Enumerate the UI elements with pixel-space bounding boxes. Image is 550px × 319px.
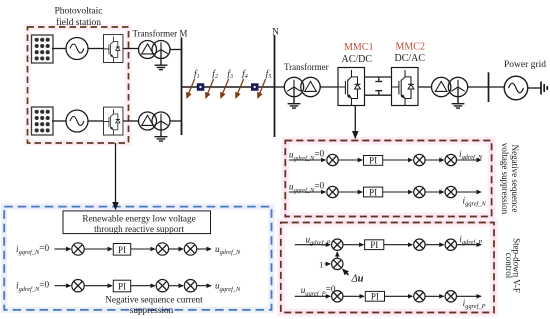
svg-text:MMC2: MMC2: [396, 42, 425, 53]
svg-text:Negative sequence: Negative sequence: [510, 145, 520, 213]
svg-text:PI: PI: [371, 292, 379, 302]
svg-text:Transformer: Transformer: [284, 62, 329, 72]
svg-text:AC/DC: AC/DC: [342, 54, 373, 65]
svg-text:suppression: suppression: [130, 305, 174, 315]
svg-text:Renewable energy low voltage: Renewable energy low voltage: [82, 214, 195, 224]
svg-text:voltage suppression: voltage suppression: [500, 143, 510, 215]
svg-text:PI: PI: [369, 156, 377, 166]
svg-text:PI: PI: [370, 240, 378, 250]
svg-text:control: control: [504, 253, 514, 279]
svg-text:N: N: [272, 28, 279, 38]
svg-text:MMC1: MMC1: [344, 42, 373, 53]
svg-text:Photovoltaic: Photovoltaic: [54, 7, 102, 17]
svg-text:Negative sequence current: Negative sequence current: [105, 295, 203, 305]
svg-text:PI: PI: [369, 187, 377, 197]
svg-text:field station: field station: [56, 17, 101, 28]
svg-text:through reactive support: through reactive support: [94, 224, 184, 234]
svg-text:Power grid: Power grid: [504, 60, 546, 70]
svg-text:PI: PI: [118, 245, 126, 255]
svg-text:1: 1: [319, 260, 323, 270]
svg-text:PI: PI: [118, 282, 126, 292]
svg-text:DC/AC: DC/AC: [395, 53, 426, 64]
svg-text:Transformer M: Transformer M: [133, 29, 188, 39]
svg-text:Δu: Δu: [351, 274, 364, 285]
